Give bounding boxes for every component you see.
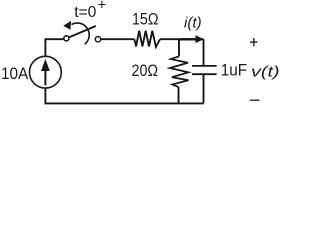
capacitor C1 bottom plate [192,73,217,75]
wire from resistor to capacitor branch [160,38,204,40]
svg-text:v(t): v(t) [251,64,280,81]
capacitor C1 top stub [203,39,205,66]
svg-text:20Ω: 20Ω [132,62,159,80]
wire from right contact to resistor R1 [101,38,135,40]
switch right contact [95,37,100,42]
resistor 20ohm zigzag [170,56,189,87]
current arrow i(t) shaft [180,38,198,40]
current source I1 arrow shaft [44,70,46,85]
svg-text:t=0: t=0 [74,4,96,21]
svg-text:15Ω: 15Ω [132,11,159,29]
switch left contact [64,36,69,41]
wire bottom rail [45,102,204,104]
current source I1 arrow head [41,59,50,71]
node junction to 20ohm branch [178,39,180,56]
wire left rail below source to bottom rail [44,88,46,103]
switch blade [69,26,96,37]
svg-text:+: + [98,0,106,13]
svg-text:1uF: 1uF [221,62,247,80]
polarity minus sign [250,99,260,101]
polarity plus sign [250,41,258,43]
svg-text:i(t): i(t) [184,16,202,32]
resistor 15ohm zigzag [134,31,160,47]
current source I1 circle [30,56,62,88]
capacitor C1 top plate [192,65,217,67]
switch arc arrowhead [63,21,71,30]
svg-text:10A: 10A [1,65,28,83]
switch motion arc [72,23,90,44]
capacitor C1 bottom stub [203,74,205,103]
wire top-left corner and left rail down to source top [45,39,63,56]
current arrow i(t) head [196,35,204,43]
wire 20ohm bottom to bottom rail [178,87,180,103]
